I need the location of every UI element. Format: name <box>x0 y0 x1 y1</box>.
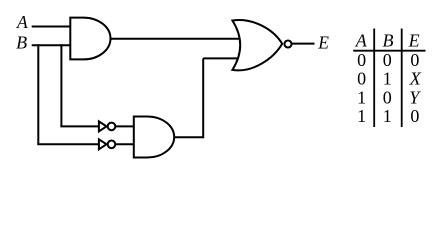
svg-text:0: 0 <box>357 50 366 70</box>
inverter U4 bubble <box>108 141 116 149</box>
svg-text:Y: Y <box>409 87 421 107</box>
wire AND2 output <box>173 136 204 138</box>
table vertical rule 2 <box>401 29 403 128</box>
svg-text:E: E <box>317 32 329 52</box>
table horizontal rule <box>353 50 425 52</box>
svg-text:0: 0 <box>357 69 366 89</box>
svg-text:B: B <box>383 31 394 51</box>
svg-text:X: X <box>409 69 422 89</box>
wire vertical riser <box>202 58 204 138</box>
NOR gate U5 output bubble <box>284 40 291 47</box>
wire lower inverter to AND2 <box>116 143 135 145</box>
inverter U4 triangle <box>99 139 107 149</box>
svg-text:A: A <box>355 31 368 51</box>
wire vertical tap to lower inverter <box>37 44 39 144</box>
wire vertical tap to upper inverter <box>60 44 62 126</box>
inverter U3 bubble <box>108 123 116 131</box>
svg-text:0: 0 <box>383 87 392 107</box>
wire input A <box>32 26 71 28</box>
inverter U3 triangle <box>99 121 107 131</box>
table vertical rule 1 <box>373 29 375 128</box>
svg-text:1: 1 <box>357 87 366 107</box>
truth table rules <box>353 29 425 128</box>
AND gate U2 <box>134 117 174 158</box>
svg-text:0: 0 <box>383 50 392 70</box>
wire AND1 output to NOR top input <box>109 38 244 40</box>
wire NOR bottom input <box>203 57 244 59</box>
svg-text:0: 0 <box>410 50 419 70</box>
svg-text:1: 1 <box>383 69 392 89</box>
wire horizontal to lower inverter <box>37 143 99 145</box>
svg-text:0: 0 <box>410 106 419 126</box>
svg-text:B: B <box>16 33 27 53</box>
NOR gate U5 body <box>232 20 282 70</box>
wire horizontal to upper inverter <box>60 125 99 127</box>
svg-text:1: 1 <box>383 106 392 126</box>
wire input B <box>32 44 71 46</box>
wire upper inverter to AND2 <box>116 125 135 127</box>
svg-text:E: E <box>408 31 420 51</box>
wire NOR output to E <box>292 43 315 45</box>
svg-text:1: 1 <box>357 106 366 126</box>
svg-text:A: A <box>16 12 28 32</box>
AND gate U1 <box>70 18 110 60</box>
